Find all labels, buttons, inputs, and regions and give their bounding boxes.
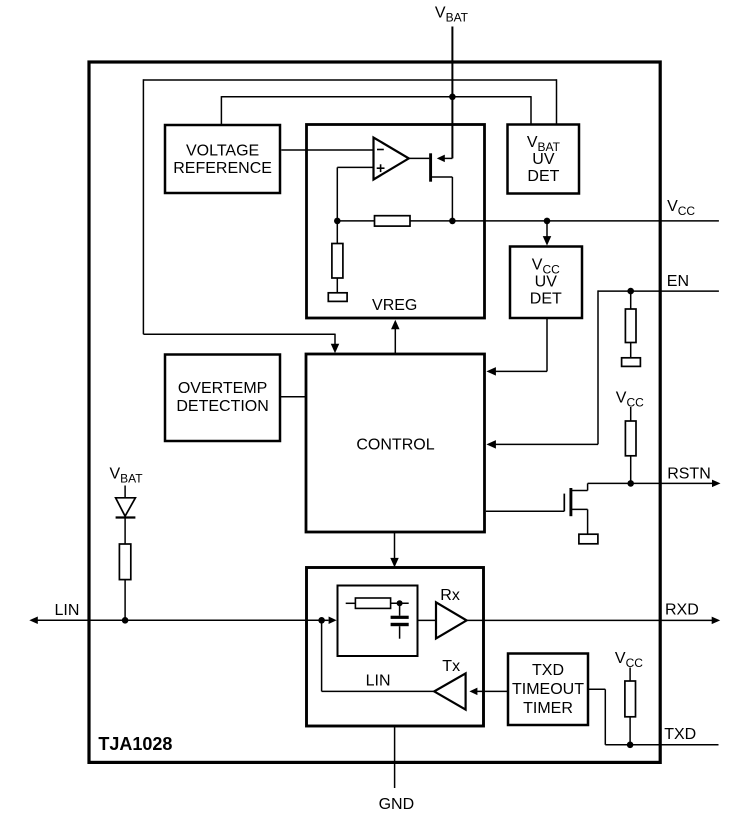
wire GND stub bbox=[394, 726, 396, 788]
wire VCC UV DET output horizontal bbox=[493, 370, 547, 372]
block RC filter bbox=[338, 586, 418, 657]
resistor R5 LIN series bbox=[119, 544, 130, 580]
svg-text:LIN: LIN bbox=[366, 673, 391, 690]
wire EN feedback horizontal bbox=[493, 443, 598, 445]
wire RC node to capacitor bbox=[399, 603, 401, 615]
wire CONTROL to VREG vertical bbox=[394, 329, 396, 354]
wire drain arrow into pass transistor bbox=[437, 155, 445, 163]
wire LIN to Tx vertical bbox=[321, 620, 323, 691]
svg-text:UV: UV bbox=[535, 274, 558, 291]
node VCC UV DET tap bbox=[544, 218, 551, 225]
svg-text:TJA1028: TJA1028 bbox=[98, 734, 172, 754]
wire TXD pin line bbox=[605, 744, 718, 746]
svg-text:VCC: VCC bbox=[616, 389, 644, 409]
svg-text:DET: DET bbox=[527, 168, 559, 185]
svg-text:Rx: Rx bbox=[440, 587, 460, 604]
wire diode to resistor stub bbox=[124, 517, 126, 544]
switch box below Q2 source bbox=[579, 534, 598, 544]
wire OVERTEMP to CONTROL bbox=[281, 396, 306, 398]
block VREG bbox=[307, 125, 485, 319]
wire net B: stub from VOLTAGE REFERENCE bbox=[220, 96, 222, 124]
wire RSTN transistor source bbox=[572, 508, 588, 510]
node TXD resistor tap bbox=[627, 742, 634, 749]
capacitor C1 lower stub bbox=[399, 626, 401, 639]
svg-text:DET: DET bbox=[530, 291, 562, 308]
transistor Q1 pass device bar bbox=[429, 153, 432, 181]
wire op-amp non-inverting input horizontal bbox=[337, 166, 373, 168]
block VCC UV DET bbox=[510, 247, 582, 319]
wire arrow into Tx buffer bbox=[469, 688, 477, 696]
wire net A arrow into CONTROL bbox=[331, 344, 340, 354]
transistor Q2 channel bar bbox=[569, 488, 572, 516]
wire net B: drop into VBAT UV DET bbox=[530, 96, 532, 124]
svg-text:TXD: TXD bbox=[664, 726, 696, 743]
svg-text:EN: EN bbox=[667, 273, 689, 290]
node VCC node at pass transistor source bbox=[449, 218, 456, 225]
node LIN branch junction bbox=[122, 617, 129, 624]
op-amp plus sign bbox=[377, 167, 385, 169]
resistor R4 RSTN pull-up bbox=[625, 421, 636, 456]
node filter RC junction bbox=[397, 600, 403, 606]
wire timer output horizontal bbox=[588, 688, 605, 690]
op-amp minus sign bbox=[377, 149, 384, 151]
transistor Q2 RSTN driver gate bar bbox=[563, 494, 565, 512]
op-amp U1 error amplifier bbox=[374, 138, 409, 180]
wire VBAT clamp upper stub bbox=[124, 486, 126, 499]
switch box below R2 bbox=[328, 293, 347, 302]
wire RXD line bbox=[466, 619, 712, 621]
svg-text:DETECTION: DETECTION bbox=[176, 398, 268, 415]
svg-text:TXD: TXD bbox=[532, 662, 564, 679]
wire arrow into LIN block top bbox=[390, 558, 399, 568]
resistor R3 EN pull-down bbox=[625, 309, 636, 343]
node EN resistor tap bbox=[627, 288, 634, 295]
wire RSTN pin line bbox=[588, 482, 713, 484]
filter internal node line bbox=[391, 602, 409, 604]
node feedback junction bbox=[334, 218, 341, 225]
wire arrow into VCC UV DET top bbox=[543, 236, 552, 246]
wire arrow into CONTROL right (uvdet) bbox=[486, 367, 496, 376]
svg-text:VBAT: VBAT bbox=[435, 4, 469, 24]
wire RSTN transistor drain bbox=[572, 490, 588, 492]
wire LIN to filter bbox=[322, 619, 329, 621]
wire filter to Rx buffer bbox=[418, 619, 437, 621]
wire VBAT supply vertical bbox=[451, 27, 453, 159]
wire EN resistor lower stub bbox=[630, 343, 632, 358]
block VOLTAGE REFERENCE bbox=[165, 125, 280, 193]
wire VCC UV DET output vertical bbox=[546, 318, 548, 371]
wire net A: drop into VBAT UV DET bbox=[556, 79, 558, 124]
node RSTN junction bbox=[627, 480, 634, 487]
node VBAT junction on net B bbox=[449, 94, 456, 101]
svg-text:UV: UV bbox=[532, 151, 555, 168]
resistor R1 feedback (horizontal) bbox=[375, 216, 411, 226]
svg-text:VCC: VCC bbox=[667, 198, 695, 218]
wire arrow into CONTROL right (EN) bbox=[486, 440, 496, 449]
svg-text:Tx: Tx bbox=[442, 658, 460, 675]
svg-text:VBAT: VBAT bbox=[110, 466, 144, 486]
wire EN resistor upper stub bbox=[630, 291, 632, 309]
wire timer output vertical bbox=[604, 689, 606, 745]
wire net A: drop to CONTROL top bbox=[334, 334, 336, 345]
wire VBAT-UVDET loop (net A): top run bbox=[143, 79, 557, 81]
wire RSTN pin arrow bbox=[712, 480, 721, 488]
buffer Rx receiver bbox=[436, 602, 467, 638]
wire op-amp output to gate bbox=[409, 157, 430, 159]
chip boundary TJA1028 bbox=[89, 62, 660, 762]
wire net A: lower run to CONTROL bbox=[143, 333, 335, 335]
svg-text:VOLTAGE: VOLTAGE bbox=[186, 142, 259, 159]
wire clamp resistor lower stub bbox=[124, 580, 126, 621]
diode D1 LIN clamp bbox=[116, 498, 136, 516]
wire RSTN VCC pull-up upper stub bbox=[630, 407, 632, 421]
block VBAT UV DET bbox=[508, 125, 580, 194]
wire feedback vertical to divider bbox=[336, 167, 338, 243]
wire TXD pull-up lower stub bbox=[629, 717, 631, 745]
wire divider lower stub bbox=[336, 278, 338, 293]
wire EN feedback vertical bbox=[597, 290, 599, 444]
wire RSTN pull-up lower stub bbox=[630, 456, 632, 484]
block TXD TIMEOUT TIMER bbox=[508, 654, 588, 726]
svg-text:RXD: RXD bbox=[665, 602, 699, 619]
wire Tx output run bbox=[322, 690, 435, 692]
wire net B: voltage-reference top run bbox=[221, 96, 531, 98]
svg-text:REFERENCE: REFERENCE bbox=[173, 160, 272, 177]
svg-text:RSTN: RSTN bbox=[667, 466, 711, 483]
resistor R7 TXD pull-up bbox=[625, 681, 636, 717]
wire TXD pull-up upper stub bbox=[629, 668, 631, 682]
svg-text:VREG: VREG bbox=[372, 297, 417, 314]
wire pass transistor source bbox=[432, 176, 453, 178]
diode D1 cathode bar bbox=[116, 516, 136, 518]
wire RXD pin arrow bbox=[712, 617, 721, 625]
wire EN pin line bbox=[598, 290, 719, 292]
svg-text:CONTROL: CONTROL bbox=[356, 437, 434, 454]
svg-text:TIMEOUT: TIMEOUT bbox=[512, 681, 584, 698]
svg-text:TIMER: TIMER bbox=[523, 700, 573, 717]
capacitor C1 top plate bbox=[391, 616, 409, 619]
resistor R6 filter (horizontal) bbox=[355, 598, 390, 608]
wire net A: left vertical bbox=[142, 79, 144, 334]
svg-text:LIN: LIN bbox=[55, 602, 80, 619]
svg-text:OVERTEMP: OVERTEMP bbox=[178, 380, 268, 397]
wire arrow into filter box bbox=[329, 617, 337, 625]
wire RSTN transistor gate from CONTROL bbox=[486, 510, 564, 512]
wire VCC drop to VCC UV DET bbox=[546, 221, 548, 237]
block LIN transceiver bbox=[307, 568, 484, 727]
capacitor C1 bottom plate bbox=[391, 623, 409, 626]
wire VCC rail to pin bbox=[410, 220, 719, 222]
svg-text:VCC: VCC bbox=[615, 650, 643, 670]
svg-text:GND: GND bbox=[379, 796, 415, 813]
switch box below R3 bbox=[622, 358, 641, 367]
wire LIN pin arrow bbox=[29, 617, 38, 625]
filter internal input stub bbox=[346, 602, 356, 604]
wire op-amp inverting input from VOLTAGE REFERENCE bbox=[281, 149, 373, 151]
buffer Tx transmitter bbox=[434, 673, 465, 709]
wire CONTROL to LIN block vertical bbox=[394, 533, 396, 559]
wire pass transistor drain bbox=[444, 157, 452, 159]
node LIN split junction bbox=[318, 617, 325, 624]
resistor R2 divider (vertical) bbox=[332, 244, 343, 279]
block CONTROL bbox=[306, 354, 485, 532]
wire LIN pin line bbox=[37, 619, 322, 621]
block OVERTEMP DETECTION bbox=[165, 355, 280, 442]
wire VCC rail inside VREG bbox=[337, 220, 374, 222]
wire timer to Tx buffer bbox=[477, 690, 508, 692]
wire arrow into VREG bottom bbox=[391, 320, 400, 330]
